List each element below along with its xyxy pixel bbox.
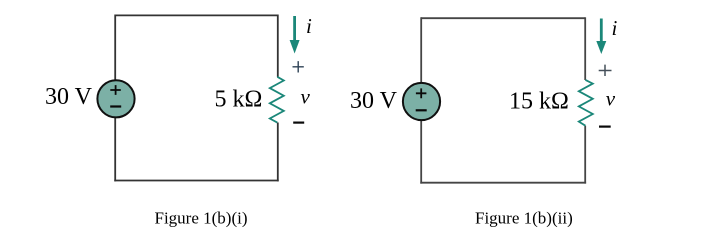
svg-text:v: v bbox=[301, 84, 311, 108]
wire bottom (right circuit) bbox=[420, 182, 586, 184]
voltage source V1 30V (left) bbox=[97, 80, 134, 117]
wire left (right circuit) bbox=[420, 17, 422, 183]
wire right upper (right circuit) bbox=[584, 17, 586, 80]
svg-text:5 kΩ: 5 kΩ bbox=[215, 86, 263, 112]
plus polarity mark (right resistor) bbox=[599, 65, 612, 76]
wire left (left circuit) bbox=[114, 15, 116, 182]
minus sign inside source (right) bbox=[416, 109, 427, 111]
wire right lower (right circuit) bbox=[584, 126, 586, 184]
svg-text:i: i bbox=[612, 16, 618, 40]
minus sign inside source (left) bbox=[110, 105, 121, 107]
wire top (left circuit) bbox=[115, 14, 278, 16]
plus sign inside source (right) bbox=[416, 88, 427, 98]
wire right upper (left circuit) bbox=[277, 15, 279, 78]
svg-text:Figure 1(b)(ii): Figure 1(b)(ii) bbox=[475, 208, 573, 227]
wire top (right circuit) bbox=[421, 17, 585, 19]
svg-text:v: v bbox=[606, 86, 616, 110]
current arrow i (left) bbox=[293, 16, 296, 42]
wire bottom (left circuit) bbox=[114, 180, 278, 182]
svg-text:15 kΩ: 15 kΩ bbox=[509, 89, 569, 115]
minus polarity mark (right resistor) bbox=[599, 125, 611, 127]
resistor R2 15k (right) zigzag bbox=[579, 80, 593, 126]
plus polarity mark (left resistor) bbox=[293, 61, 304, 72]
svg-text:30 V: 30 V bbox=[45, 84, 93, 110]
minus polarity mark (left resistor) bbox=[293, 121, 304, 123]
resistor R1 5k (left) zigzag bbox=[270, 77, 284, 123]
current arrow i (right) bbox=[600, 19, 603, 43]
voltage source V2 30V (right) bbox=[403, 83, 440, 120]
plus sign inside source (left) bbox=[110, 85, 121, 95]
svg-text:30 V: 30 V bbox=[350, 88, 398, 114]
svg-text:Figure 1(b)(i): Figure 1(b)(i) bbox=[155, 208, 248, 227]
svg-text:i: i bbox=[306, 14, 312, 38]
wire right lower (left circuit) bbox=[277, 123, 279, 182]
